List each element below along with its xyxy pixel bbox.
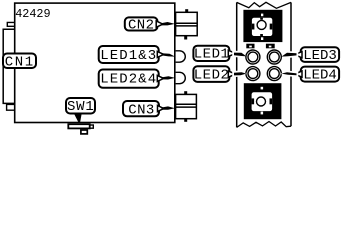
bracket right edge — [290, 2, 292, 126]
label CN1 — [3, 54, 36, 71]
svg-text:LED1&3: LED1&3 — [100, 48, 157, 64]
svg-text:LED1: LED1 — [194, 47, 230, 63]
switch SW1 side tab — [90, 125, 93, 128]
switch SW1 housing (below bottom edge) — [68, 124, 89, 128]
svg-text:LED3: LED3 — [303, 48, 337, 64]
notch bottom left — [7, 104, 15, 110]
bracket jagged bottom — [237, 122, 291, 128]
svg-text:LED4: LED4 — [303, 68, 337, 84]
LED hole 4 (bottom-right) — [267, 67, 281, 81]
label CN3 with pointer and arrow — [123, 101, 175, 119]
LED bump 2 (board edge LED2&4) — [176, 72, 186, 83]
LED hole 3 (top-right) — [267, 50, 281, 64]
bracket connector cutout bottom (black square) — [244, 83, 282, 119]
svg-text:LED2&4: LED2&4 — [100, 72, 157, 88]
board outline — [15, 3, 175, 122]
LED hole 2 (bottom-left) — [246, 67, 260, 81]
bracket connector cutout top (black square) — [243, 10, 282, 42]
label LED2&4 with pointer and arrow — [99, 70, 176, 88]
connector CN3 (bottom right edge) — [176, 94, 197, 118]
svg-text:CN3: CN3 — [128, 103, 154, 119]
LED hole 1 (top-left) — [246, 50, 260, 64]
svg-text:CN1: CN1 — [5, 55, 35, 71]
label LED1 with pointer and arrow to bracket hole — [193, 46, 246, 63]
label LED3 with pointer and arrow to bracket hole — [281, 47, 339, 64]
bracket left edge — [236, 2, 238, 127]
svg-text:LED2: LED2 — [194, 67, 230, 83]
label LED4 with pointer and arrow to bracket hole — [281, 67, 339, 84]
switch SW1 knob — [81, 130, 87, 134]
svg-text:SW1: SW1 — [67, 99, 95, 115]
label CN2 with pointer and arrow — [125, 17, 175, 33]
svg-text:42429: 42429 — [15, 7, 50, 21]
mount tabs below top cutout — [246, 44, 254, 49]
bracket jagged top — [237, 2, 291, 8]
label SW1 with down arrow to switch — [66, 98, 95, 122]
svg-text:CN2: CN2 — [128, 18, 154, 34]
label LED1&3 with pointer and arrow — [99, 46, 176, 64]
label LED2 with pointer and arrow to bracket hole — [193, 66, 246, 83]
LED bump 1 (board edge LED1&3) — [176, 51, 186, 62]
notch top left — [7, 22, 14, 26]
connector CN2 (top right edge) — [176, 12, 198, 35]
connector CN1 (left edge) — [3, 29, 15, 103]
